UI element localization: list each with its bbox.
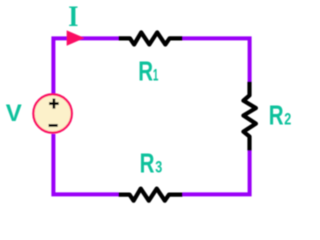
voltage source V [33,94,71,132]
wire top-left segment [53,38,118,95]
label R1 [138,55,158,86]
svg-text:I: I [68,0,78,33]
svg-text:3: 3 [155,157,162,176]
minus sign of source [49,124,58,127]
plus sign of source [49,99,59,109]
svg-text:R: R [138,55,153,86]
svg-text:R: R [140,147,155,178]
label R2 [269,100,292,131]
resistor R1 [119,32,183,44]
wire right-bottom segment [183,150,250,194]
resistor R2 [243,82,256,151]
svg-text:V: V [6,100,22,127]
svg-text:1: 1 [153,65,159,84]
resistor R3 [119,189,183,201]
svg-text:2: 2 [284,110,291,129]
label R3 [140,147,163,178]
svg-text:R: R [269,100,284,131]
current arrow I [67,30,85,45]
wire top-right segment [183,38,250,82]
wire bottom-left segment [53,134,118,194]
